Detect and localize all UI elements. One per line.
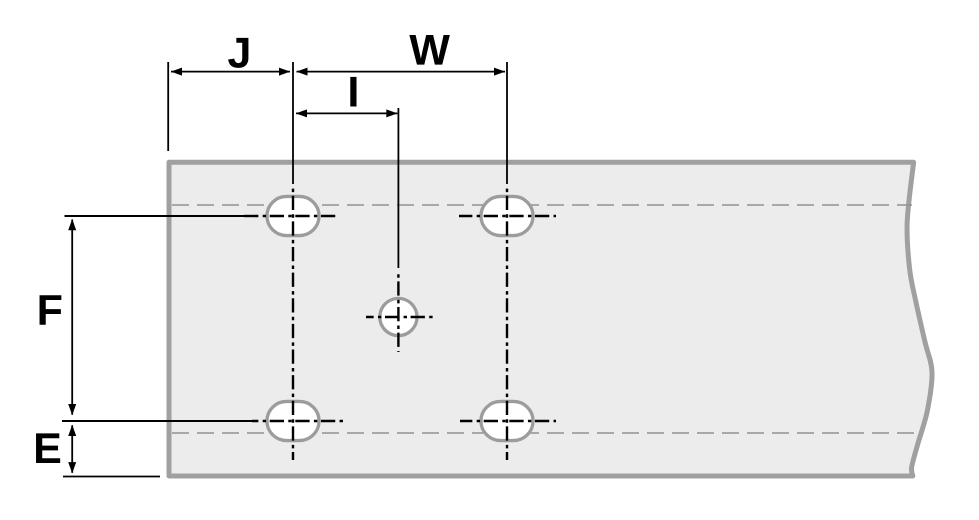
dashed fold line bottom: [172, 432, 914, 434]
centerline horizontal bottom-right hole: [460, 420, 556, 422]
label J: [228, 38, 248, 68]
dimension line W: [297, 71, 506, 73]
plate body with wavy break edge: [169, 162, 932, 476]
extension line top hole row: [65, 215, 251, 217]
extension line center hole column: [397, 108, 399, 268]
extension line second hole column: [506, 62, 508, 184]
slot hole top-left: [267, 196, 319, 235]
extension line left edge vertical: [167, 62, 169, 151]
label F: [40, 295, 62, 325]
extension line first hole column: [292, 62, 294, 184]
extension line bottom edge: [63, 476, 160, 478]
dimension line E: [71, 425, 73, 473]
label W: [409, 35, 450, 65]
label I: [350, 77, 356, 107]
centerline horizontal top-right hole: [459, 215, 556, 217]
dashed fold line top: [172, 204, 912, 206]
dimension line I: [296, 112, 397, 114]
slot hole bottom-right: [481, 401, 533, 440]
centerline vertical center hole: [397, 272, 399, 352]
dimension line F: [71, 220, 73, 415]
centerline horizontal top-left hole: [242, 215, 338, 217]
slot hole bottom-left: [267, 401, 319, 440]
center hole: [380, 298, 417, 335]
centerline vertical right column: [506, 186, 508, 460]
centerline vertical left column: [292, 186, 294, 460]
centerline horizontal center hole: [366, 316, 433, 318]
dimension line J: [171, 71, 290, 73]
slot hole top-right: [481, 196, 533, 235]
centerline horizontal bottom-left hole: [252, 420, 345, 422]
label E: [36, 433, 60, 463]
extension line bottom hole row: [62, 420, 258, 422]
